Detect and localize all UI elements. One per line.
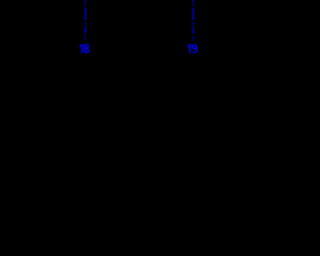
wire segment W19.2 bbox=[192, 4, 194, 6]
wire segment W19.7 bbox=[192, 39, 194, 40]
node 19: grid reference number label bbox=[188, 45, 197, 53]
wire: dash-dot vertical line for column 19 bbox=[192, 0, 194, 40]
digit 9 bbox=[193, 45, 197, 49]
wire segment W18.5 bbox=[84, 27, 86, 34]
wire segment W19.6 bbox=[192, 36, 194, 38]
wire segment W19.3 bbox=[192, 8, 194, 20]
wire segment W18.4 bbox=[84, 22, 86, 24]
wire segment W19.1 bbox=[192, 0, 194, 2]
wire segment W18.7 bbox=[84, 39, 86, 40]
node 18: grid reference number label bbox=[80, 45, 88, 53]
wire segment W18.1 bbox=[84, 0, 86, 2]
wire segment W18.3 bbox=[84, 8, 86, 21]
digit 8 bbox=[85, 45, 89, 49]
digit 1 bbox=[80, 45, 82, 53]
wire segment W18.2 bbox=[84, 4, 86, 6]
wire segment W18.6 bbox=[84, 36, 86, 37]
wire segment W19.4 bbox=[192, 23, 194, 25]
wire: dash-dot vertical line for column 18 bbox=[84, 0, 86, 40]
wire segment W19.5 bbox=[192, 27, 194, 34]
digit 1 bbox=[188, 45, 190, 53]
